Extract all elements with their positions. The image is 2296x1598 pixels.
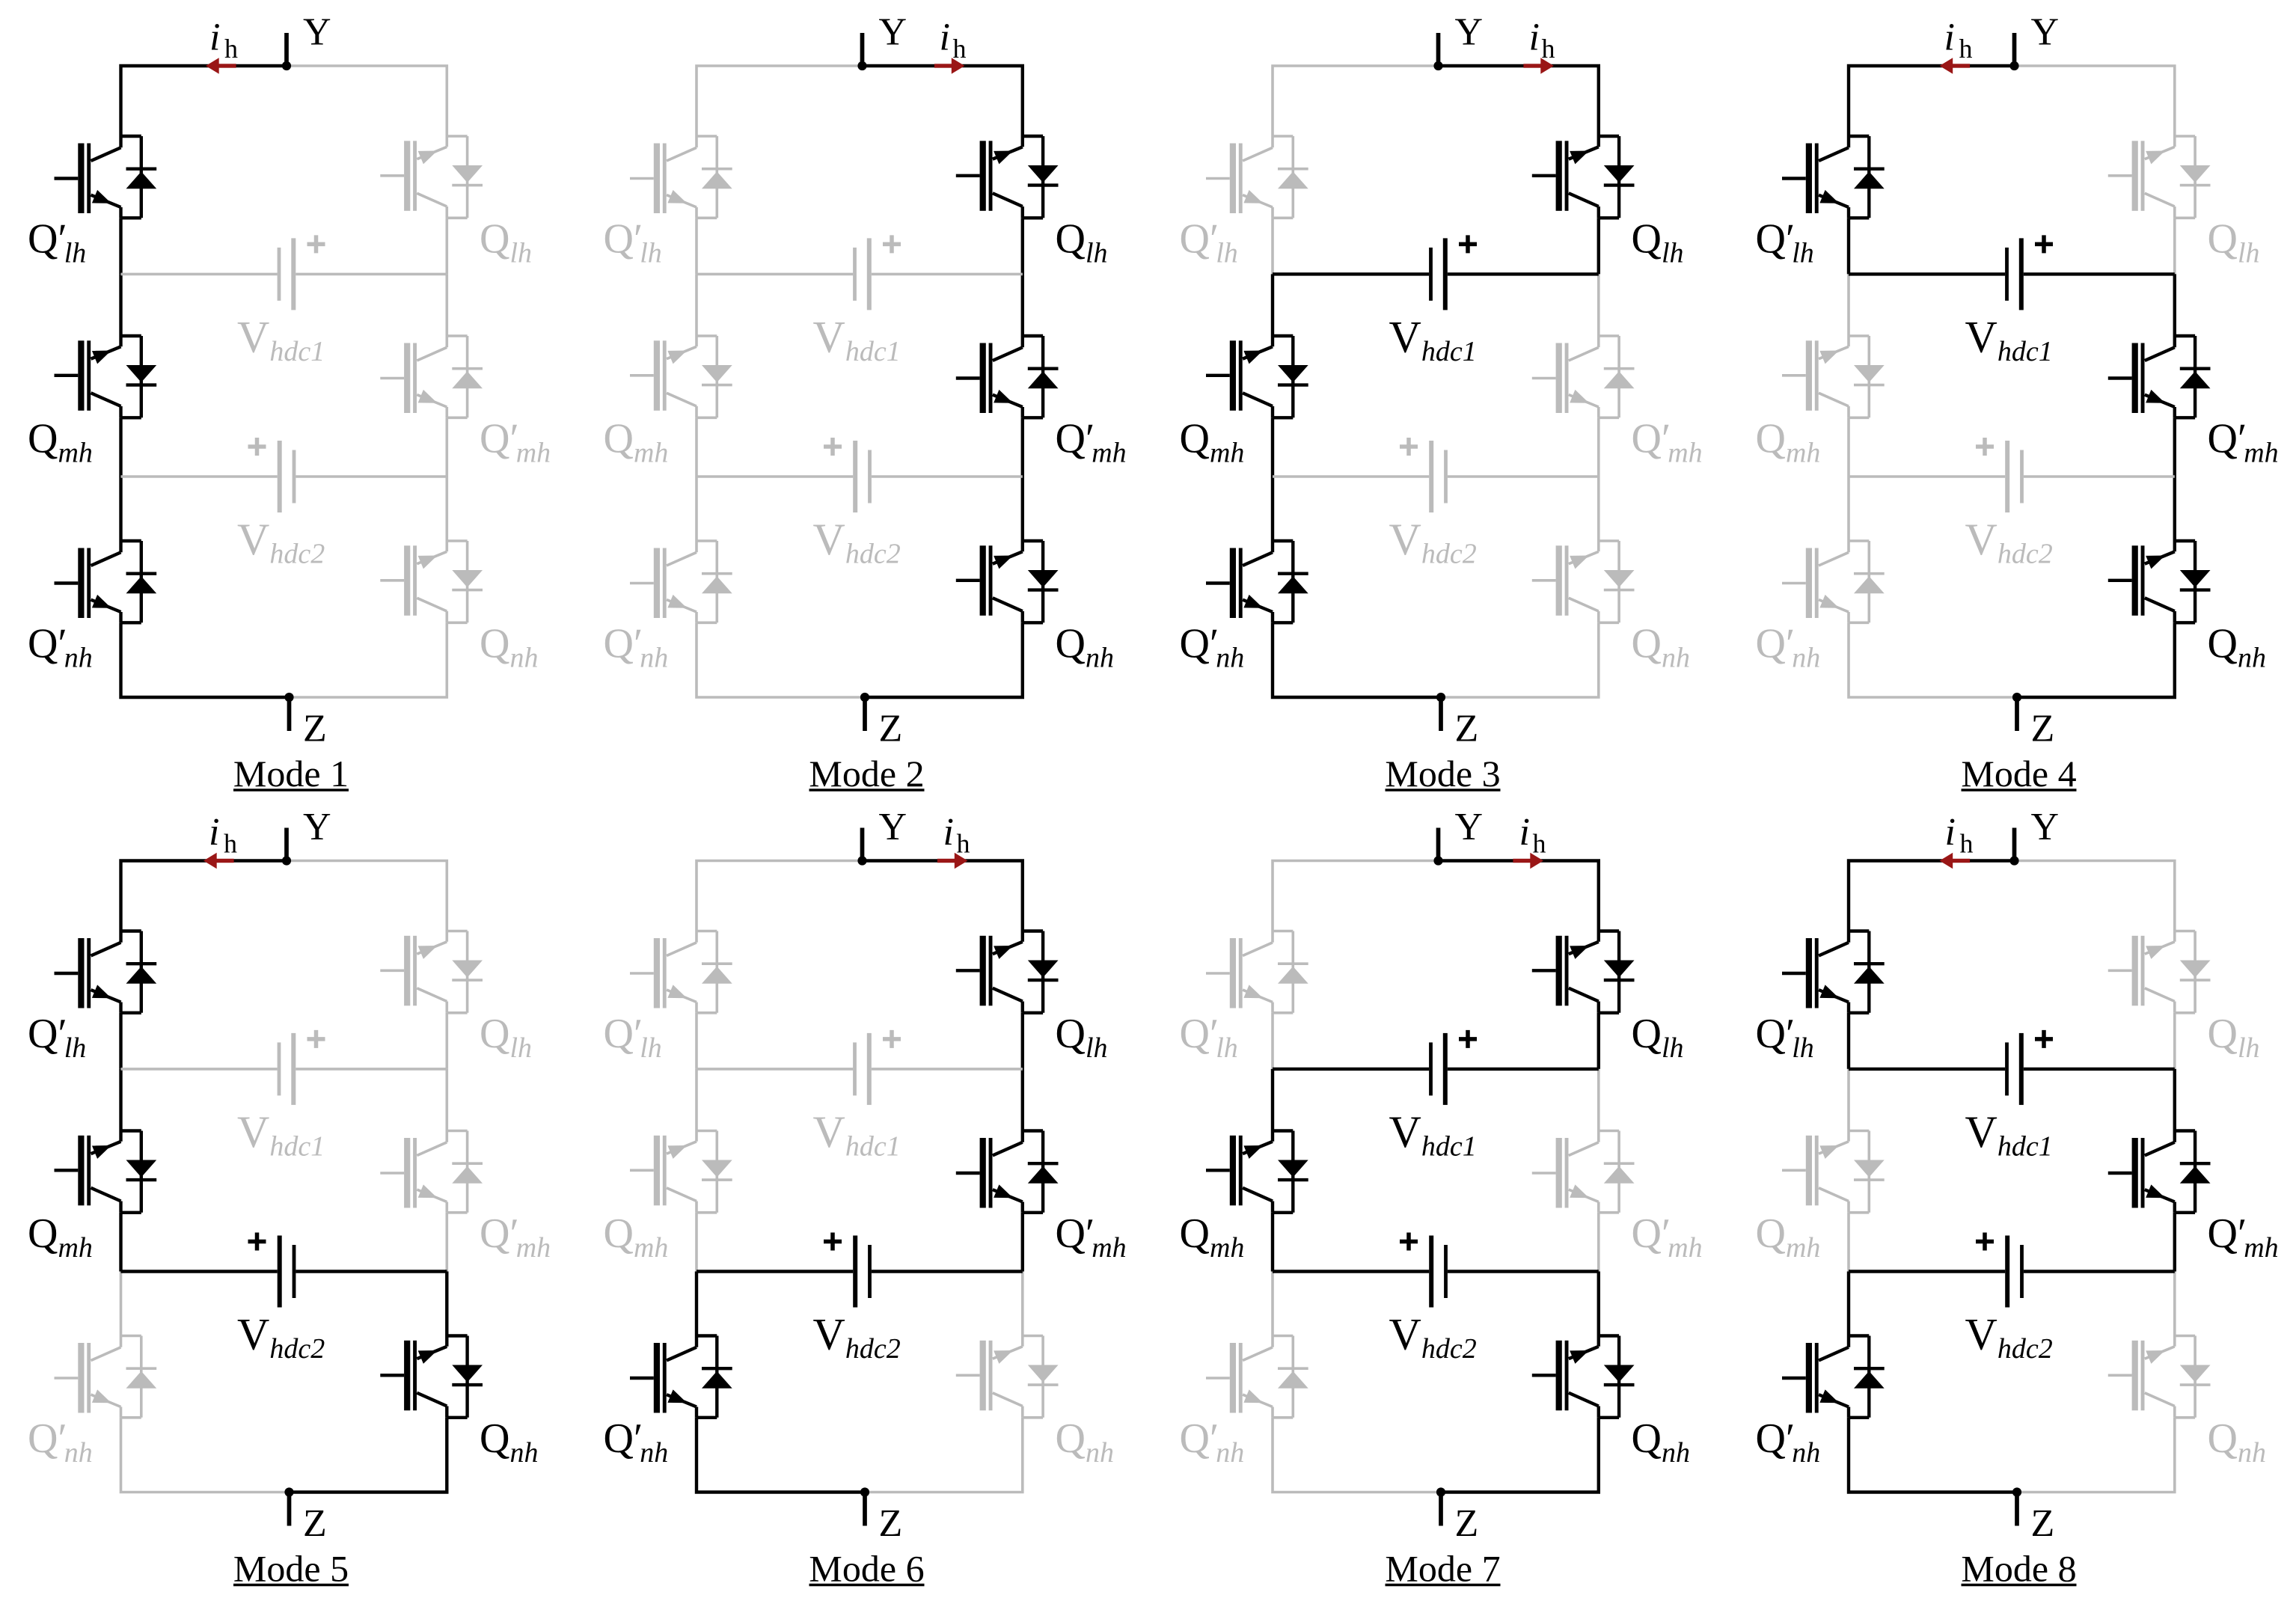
wire M8: bottom-right, Q_nh emitter to Z node [2017,1418,2175,1493]
wire M7: right rail, V_hdc2 branch junction to Q_nh [1597,1272,1600,1336]
wire M1: right rail, Q&apos;_mh to V_hdc2 branch junction [445,417,448,477]
wire M6: right rail, V_hdc2 branch junction to Q_nh [1021,1272,1024,1336]
wire M8: right rail, V_hdc1 branch junction to Q&apos;_mh [2173,1069,2176,1131]
wire M7: V_hdc1 branch, battery positive plate to right rail [1448,1068,1599,1071]
node Y (output terminal), Mode 7 [1433,828,1442,866]
wire M5: right rail, V_hdc2 branch junction to Q_nh [445,1272,448,1336]
node Y (output terminal), Mode 2 [857,33,866,70]
wire M6: right rail, Q_lh to V_hdc1 branch junction [1021,1013,1024,1069]
svg-text:Q′nh: Q′nh [1756,620,1821,673]
wire M2: right rail, Q_lh to V_hdc1 branch junction [1021,218,1024,274]
svg-text:Q′mh: Q′mh [1632,415,1703,468]
transistor Q&apos;_nh (IGBT with antiparallel diode), Mode 6 [630,1336,732,1418]
wire M4: V_hdc1 branch, battery positive plate to right rail [2024,272,2175,275]
battery V_hdc2 (DC source, + left), Mode 1 [248,438,296,512]
wire M7: right rail, Q&apos;_mh to V_hdc2 branch junction [1597,1213,1600,1272]
transistor Q_lh (IGBT with antiparallel diode), Mode 4 [2108,136,2211,218]
current arrow i_h (rightward), Mode 7 [1513,853,1543,869]
svg-text:Z: Z [2031,1502,2055,1545]
svg-text:Vhdc2: Vhdc2 [237,1310,325,1365]
wire M2: V_hdc2 branch, battery negative plate to right rail [872,475,1023,478]
transistor Q&apos;_nh (IGBT with antiparallel diode), Mode 7 [1206,1336,1308,1418]
wire M3: bottom-right, Q_nh emitter to Z node [1441,622,1599,697]
svg-text:Y: Y [1455,11,1484,54]
svg-text:Qlh: Qlh [2208,215,2260,269]
wire M3: left rail, Q&apos;_lh emitter to V_hdc1 branch junction [1271,218,1274,274]
wire M5: right rail, Q_lh to V_hdc1 branch junction [445,1013,448,1069]
transistor Q&apos;_mh (IGBT with antiparallel diode), Mode 2 [956,336,1059,417]
svg-text:Qmh: Qmh [1180,415,1245,468]
wire M5: left rail, V_hdc1 branch junction to Q_mh [119,1069,122,1131]
transistor Q_nh (IGBT with antiparallel diode), Mode 2 [956,541,1059,622]
wire M1: left rail, Q&apos;_lh emitter to V_hdc1 branch junction [119,218,122,274]
transistor Q&apos;_mh (IGBT with antiparallel diode), Mode 6 [956,1131,1059,1213]
transistor Q_nh (IGBT with antiparallel diode), Mode 1 [380,541,483,622]
transistor Q&apos;_lh (IGBT with antiparallel diode), Mode 7 [1206,931,1308,1013]
transistor Q_mh (IGBT with antiparallel diode), Mode 5 [55,1131,157,1213]
transistor Q&apos;_nh (IGBT with antiparallel diode), Mode 5 [55,1336,157,1418]
wire M7: right rail, V_hdc1 branch junction to Q&apos;_mh [1597,1069,1600,1131]
svg-text:Vhdc2: Vhdc2 [1389,515,1477,570]
wire M3: left rail, V_hdc1 branch junction to Q_mh [1271,274,1274,336]
svg-text:Q′lh: Q′lh [28,1011,86,1064]
wire M2: right rail, V_hdc2 branch junction to Q_nh [1021,477,1024,541]
wire M8: bottom-left, Q&apos;_nh emitter to Z node [1849,1418,2017,1493]
transistor Q_nh (IGBT with antiparallel diode), Mode 4 [2108,541,2211,622]
svg-text:Vhdc2: Vhdc2 [1965,515,2053,570]
transistor Q&apos;_mh (IGBT with antiparallel diode), Mode 7 [1532,1131,1635,1213]
transistor Q&apos;_lh (IGBT with antiparallel diode), Mode 6 [630,931,732,1013]
svg-text:Qnh: Qnh [480,620,538,673]
svg-text:Q′nh: Q′nh [604,1415,669,1469]
wire M6: left rail, V_hdc1 branch junction to Q_mh [695,1069,698,1131]
wire M8: right rail, Q&apos;_mh to V_hdc2 branch junction [2173,1213,2176,1272]
svg-text:i: i [1519,811,1530,854]
current arrow i_h (rightward), Mode 6 [937,853,968,869]
wire M8: left rail, V_hdc1 branch junction to Q_mh [1847,1069,1850,1131]
svg-text:Vhdc2: Vhdc2 [1965,1310,2053,1365]
transistor Q_lh (IGBT with antiparallel diode), Mode 7 [1532,931,1635,1013]
transistor Q&apos;_lh (IGBT with antiparallel diode), Mode 5 [55,931,157,1013]
transistor Q_nh (IGBT with antiparallel diode), Mode 6 [956,1336,1059,1418]
transistor Q&apos;_mh (IGBT with antiparallel diode), Mode 3 [1532,336,1635,417]
svg-text:Q′lh: Q′lh [604,215,662,269]
svg-text:Vhdc1: Vhdc1 [1389,312,1477,367]
svg-text:Vhdc1: Vhdc1 [1965,1107,2053,1163]
svg-text:Q′nh: Q′nh [1180,620,1245,673]
wire M8: left rail, Q&apos;_lh emitter to V_hdc1 branch junction [1847,1013,1850,1069]
node Y (output terminal), Mode 5 [282,828,291,866]
svg-text:i: i [209,811,219,854]
wire M7: top-left, Y node to Q&apos;_lh collector (left rail top) [1273,861,1439,931]
transistor Q_lh (IGBT with antiparallel diode), Mode 6 [956,931,1059,1013]
svg-text:Q′mh: Q′mh [2208,415,2279,468]
svg-text:Y: Y [2031,11,2060,54]
svg-text:Mode 5: Mode 5 [233,1548,349,1590]
wire M8: right rail, Q_lh to V_hdc1 branch junction [2173,1013,2176,1069]
wire M5: right rail, V_hdc1 branch junction to Q&apos;_mh [445,1069,448,1131]
wire M3: right rail, Q_lh to V_hdc1 branch junction [1597,218,1600,274]
svg-text:Qlh: Qlh [1632,1011,1684,1064]
node Z (output terminal), Mode 6 [860,1487,869,1525]
svg-text:i: i [1944,16,1955,59]
battery V_hdc2 (DC source, + left), Mode 4 [1976,438,2024,512]
wire M7: bottom-left, Q&apos;_nh emitter to Z node [1273,1418,1441,1493]
current arrow i_h (leftward), Mode 5 [203,853,234,869]
transistor Q_mh (IGBT with antiparallel diode), Mode 6 [630,1131,732,1213]
svg-text:Qlh: Qlh [2208,1011,2260,1064]
transistor Q_lh (IGBT with antiparallel diode), Mode 1 [380,136,483,218]
transistor Q_mh (IGBT with antiparallel diode), Mode 8 [1782,1131,1885,1213]
node Y (output terminal), Mode 4 [2009,33,2018,70]
svg-text:Qmh: Qmh [1756,1210,1821,1264]
transistor Q&apos;_lh (IGBT with antiparallel diode), Mode 4 [1782,136,1885,218]
wire M5: left rail, Q&apos;_lh emitter to V_hdc1 branch junction [119,1013,122,1069]
node Z (output terminal), Mode 2 [860,693,869,731]
wire M2: left rail, V_hdc2 branch junction to Q&apos;_nh [695,477,698,541]
svg-text:h: h [953,34,967,64]
svg-text:Q′lh: Q′lh [1756,215,1814,269]
svg-text:h: h [224,829,237,859]
wire M4: top-left, Y node to Q&apos;_lh collector (left rail top) [1849,66,2015,136]
wire M6: bottom-right, Q_nh emitter to Z node [865,1418,1023,1493]
wire M3: V_hdc2 branch, left rail to battery positive plate [1273,475,1429,478]
wire M1: left rail, V_hdc2 branch junction to Q&apos;_nh [119,477,122,541]
svg-text:Q′lh: Q′lh [1756,1011,1814,1064]
wire M6: V_hdc2 branch, battery negative plate to right rail [872,1270,1023,1273]
svg-text:Qlh: Qlh [480,215,532,269]
wire M3: bottom-left, Q&apos;_nh emitter to Z node [1273,622,1441,697]
svg-text:Q′lh: Q′lh [604,1011,662,1064]
wire M3: left rail, Q_mh to V_hdc2 branch junction [1271,417,1274,477]
svg-text:Q′mh: Q′mh [1632,1210,1703,1264]
wire M6: right rail, V_hdc1 branch junction to Q&apos;_mh [1021,1069,1024,1131]
wire M1: right rail, V_hdc2 branch junction to Q_nh [445,477,448,541]
wire M1: V_hdc1 branch, left rail to battery negative plate [121,273,278,276]
wire M2: V_hdc1 branch, battery positive plate to right rail [872,273,1023,276]
wire M4: left rail, V_hdc1 branch junction to Q_mh [1847,274,1850,336]
wire M5: V_hdc1 branch, battery positive plate to right rail [296,1068,447,1071]
wire M7: V_hdc1 branch, left rail to battery negative plate [1273,1068,1429,1071]
svg-text:Q′mh: Q′mh [1056,415,1127,468]
svg-text:Qnh: Qnh [1056,1415,1114,1469]
svg-text:Z: Z [303,708,327,750]
current arrow i_h (rightward), Mode 3 [1523,58,1554,73]
svg-text:Qnh: Qnh [2208,1415,2266,1469]
transistor Q&apos;_nh (IGBT with antiparallel diode), Mode 1 [55,541,157,622]
wire M5: right rail, Q&apos;_mh to V_hdc2 branch junction [445,1213,448,1272]
wire M4: left rail, Q&apos;_lh emitter to V_hdc1 branch junction [1847,218,1850,274]
svg-text:Z: Z [1455,708,1479,750]
svg-text:Qlh: Qlh [1632,215,1684,269]
svg-text:Q′nh: Q′nh [28,1415,93,1469]
wire M8: V_hdc1 branch, left rail to battery negative plate [1849,1068,2005,1071]
svg-text:Z: Z [1455,1502,1479,1545]
battery V_hdc2 (DC source, + left), Mode 6 [824,1233,872,1308]
wire M5: top-right, Y node to Q_lh collector (right rail top) [287,861,447,931]
svg-text:Vhdc1: Vhdc1 [813,312,901,367]
battery V_hdc1 (DC source, + right), Mode 6 [853,1030,901,1105]
wire M3: right rail, V_hdc1 branch junction to Q&apos;_mh [1597,274,1600,336]
wire M7: V_hdc2 branch, left rail to battery positive plate [1273,1270,1429,1273]
wire M4: V_hdc1 branch, left rail to battery negative plate [1849,272,2005,275]
svg-text:Z: Z [879,1502,903,1545]
svg-text:Qnh: Qnh [480,1415,538,1469]
transistor Q_nh (IGBT with antiparallel diode), Mode 7 [1532,1336,1635,1418]
transistor Q_nh (IGBT with antiparallel diode), Mode 8 [2108,1336,2211,1418]
wire M6: top-right, Y node to Q_lh collector (right rail top) [863,861,1023,931]
svg-text:Qmh: Qmh [604,415,669,468]
wire M5: V_hdc2 branch, battery negative plate to right rail [296,1270,447,1273]
transistor Q_lh (IGBT with antiparallel diode), Mode 5 [380,931,483,1013]
transistor Q_nh (IGBT with antiparallel diode), Mode 5 [380,1336,483,1418]
wire M4: V_hdc2 branch, left rail to battery positive plate [1849,475,2005,478]
wire M5: left rail, V_hdc2 branch junction to Q&apos;_nh [120,1272,123,1336]
wire M4: top-right, Y node to Q_lh collector (right rail top) [2015,66,2175,136]
wire M6: V_hdc2 branch, left rail to battery positive plate [697,1270,853,1273]
svg-text:Q′nh: Q′nh [604,620,669,673]
svg-text:Q′lh: Q′lh [1180,215,1238,269]
wire M8: V_hdc2 branch, battery negative plate to right rail [2024,1270,2175,1273]
wire M1: right rail, Q_lh to V_hdc1 branch junction [445,218,448,274]
wire M1: top-left, Y node to Q&apos;_lh collector (left rail top) [121,66,287,136]
svg-text:Y: Y [303,11,331,54]
transistor Q&apos;_lh (IGBT with antiparallel diode), Mode 1 [55,136,157,218]
transistor Q&apos;_nh (IGBT with antiparallel diode), Mode 4 [1782,541,1885,622]
wire M2: bottom-left, Q&apos;_nh emitter to Z node [697,622,865,697]
wire M7: left rail, Q_mh to V_hdc2 branch junction [1271,1213,1274,1272]
svg-text:Vhdc1: Vhdc1 [237,1107,325,1163]
svg-text:Qnh: Qnh [1632,620,1690,673]
wire M1: left rail, V_hdc1 branch junction to Q_mh [119,274,122,336]
wire M7: V_hdc2 branch, battery negative plate to right rail [1448,1270,1599,1273]
wire M3: right rail, Q&apos;_mh to V_hdc2 branch junction [1597,417,1600,477]
svg-text:Q′mh: Q′mh [1056,1210,1127,1264]
svg-text:Vhdc2: Vhdc2 [813,1310,901,1365]
wire M8: right rail, V_hdc2 branch junction to Q_nh [2173,1272,2176,1336]
battery V_hdc2 (DC source, + left), Mode 2 [824,438,872,512]
wire M6: V_hdc1 branch, battery positive plate to right rail [872,1068,1023,1071]
svg-text:Qnh: Qnh [1056,620,1114,673]
wire M2: V_hdc1 branch, left rail to battery negative plate [697,273,853,276]
current arrow i_h (rightward), Mode 2 [934,58,965,73]
wire M6: left rail, Q_mh to V_hdc2 branch junction [695,1213,698,1272]
wire M5: bottom-right, Q_nh emitter to Z node [290,1418,447,1493]
svg-text:Vhdc2: Vhdc2 [813,515,901,570]
wire M8: top-right, Y node to Q_lh collector (right rail top) [2015,861,2175,931]
wire M8: left rail, Q_mh to V_hdc2 branch junction [1847,1213,1850,1272]
svg-text:Vhdc1: Vhdc1 [237,312,325,367]
transistor Q&apos;_lh (IGBT with antiparallel diode), Mode 3 [1206,136,1308,218]
node Z (output terminal), Mode 1 [284,693,293,731]
svg-text:i: i [943,811,954,854]
transistor Q&apos;_nh (IGBT with antiparallel diode), Mode 2 [630,541,732,622]
node Y (output terminal), Mode 3 [1433,33,1442,70]
svg-text:Mode 1: Mode 1 [233,753,349,795]
svg-text:Qmh: Qmh [28,415,93,468]
wire M3: V_hdc1 branch, battery positive plate to right rail [1448,272,1599,275]
wire M7: left rail, Q&apos;_lh emitter to V_hdc1 branch junction [1271,1013,1274,1069]
wire M3: top-right, Y node to Q_lh collector (right rail top) [1439,66,1599,136]
svg-text:i: i [1945,811,1956,854]
wire M4: V_hdc2 branch, battery negative plate to right rail [2024,475,2175,478]
svg-text:Mode 8: Mode 8 [1961,1548,2076,1590]
svg-text:Q′lh: Q′lh [1180,1011,1238,1064]
wire M7: bottom-right, Q_nh emitter to Z node [1441,1418,1599,1493]
svg-text:Q′lh: Q′lh [28,215,86,269]
wire M4: right rail, V_hdc2 branch junction to Q_nh [2173,477,2176,541]
node Z (output terminal), Mode 8 [2012,1487,2021,1525]
svg-text:Mode 6: Mode 6 [809,1548,924,1590]
wire M1: V_hdc2 branch, battery negative plate to right rail [296,475,447,478]
svg-text:Y: Y [303,806,331,848]
wire M2: top-right, Y node to Q_lh collector (right rail top) [863,66,1023,136]
svg-text:Mode 2: Mode 2 [809,753,924,795]
svg-text:Qmh: Qmh [1756,415,1821,468]
battery V_hdc2 (DC source, + left), Mode 7 [1400,1233,1448,1308]
wire M8: top-left, Y node to Q&apos;_lh collector (left rail top) [1849,861,2015,931]
battery V_hdc2 (DC source, + left), Mode 8 [1976,1233,2024,1308]
svg-text:i: i [209,16,220,59]
wire M7: right rail, Q_lh to V_hdc1 branch junction [1597,1013,1600,1069]
svg-text:h: h [224,34,238,64]
svg-text:Q′nh: Q′nh [1180,1415,1245,1469]
wire M6: left rail, Q&apos;_lh emitter to V_hdc1 branch junction [695,1013,698,1069]
transistor Q&apos;_mh (IGBT with antiparallel diode), Mode 5 [380,1131,483,1213]
wire M2: bottom-right, Q_nh emitter to Z node [865,622,1023,697]
transistor Q_lh (IGBT with antiparallel diode), Mode 3 [1532,136,1635,218]
battery V_hdc1 (DC source, + right), Mode 8 [2005,1030,2053,1105]
svg-text:Mode 7: Mode 7 [1385,1548,1500,1590]
svg-text:Q′nh: Q′nh [1756,1415,1821,1469]
wire M3: left rail, V_hdc2 branch junction to Q&apos;_nh [1271,477,1274,541]
wire M7: left rail, V_hdc2 branch junction to Q&apos;_nh [1271,1272,1274,1336]
battery V_hdc1 (DC source, + right), Mode 5 [278,1030,325,1105]
wire M6: V_hdc1 branch, left rail to battery negative plate [697,1068,853,1071]
svg-text:Qnh: Qnh [1632,1415,1690,1469]
wire M3: top-left, Y node to Q&apos;_lh collector (left rail top) [1273,66,1439,136]
node Z (output terminal), Mode 4 [2012,693,2021,731]
transistor Q&apos;_nh (IGBT with antiparallel diode), Mode 3 [1206,541,1308,622]
wire M1: left rail, Q_mh to V_hdc2 branch junction [119,417,122,477]
transistor Q&apos;_mh (IGBT with antiparallel diode), Mode 8 [2108,1131,2211,1213]
wire M5: left rail, Q_mh to V_hdc2 branch junction [119,1213,122,1272]
wire M8: left rail, V_hdc2 branch junction to Q&apos;_nh [1847,1272,1850,1336]
battery V_hdc1 (DC source, + right), Mode 7 [1429,1030,1477,1105]
node Y (output terminal), Mode 1 [282,33,291,70]
battery V_hdc1 (DC source, + right), Mode 3 [1429,235,1477,310]
svg-text:Y: Y [879,11,907,54]
wire M6: bottom-left, Q&apos;_nh emitter to Z node [697,1418,865,1493]
svg-text:Vhdc1: Vhdc1 [1965,312,2053,367]
wire M2: left rail, Q&apos;_lh emitter to V_hdc1 branch junction [695,218,698,274]
svg-text:i: i [1529,16,1540,59]
wire M5: bottom-left, Q&apos;_nh emitter to Z node [121,1418,290,1493]
svg-text:Y: Y [2031,806,2060,848]
svg-text:Vhdc2: Vhdc2 [237,515,325,570]
svg-text:Vhdc2: Vhdc2 [1389,1310,1477,1365]
battery V_hdc2 (DC source, + left), Mode 5 [248,1233,296,1308]
battery V_hdc2 (DC source, + left), Mode 3 [1400,438,1448,512]
svg-text:Mode 3: Mode 3 [1385,753,1500,795]
battery V_hdc1 (DC source, + right), Mode 1 [278,235,325,310]
svg-text:Y: Y [1455,806,1484,848]
wire M6: top-left, Y node to Q&apos;_lh collector (left rail top) [697,861,863,931]
svg-text:Q′mh: Q′mh [480,415,551,468]
wire M2: top-left, Y node to Q&apos;_lh collector (left rail top) [697,66,863,136]
node Y (output terminal), Mode 8 [2009,828,2018,866]
wire M5: V_hdc1 branch, left rail to battery negative plate [121,1068,278,1071]
wire M6: right rail, Q&apos;_mh to V_hdc2 branch junction [1021,1213,1024,1272]
wire M4: bottom-right, Q_nh emitter to Z node [2017,622,2175,697]
transistor Q_nh (IGBT with antiparallel diode), Mode 3 [1532,541,1635,622]
svg-text:Z: Z [2031,708,2055,750]
node Y (output terminal), Mode 6 [857,828,866,866]
svg-text:Vhdc1: Vhdc1 [1389,1107,1477,1163]
svg-text:Qnh: Qnh [2208,620,2266,673]
svg-text:Qlh: Qlh [480,1011,532,1064]
wire M1: top-right, Y node to Q_lh collector (right rail top) [287,66,447,136]
current arrow i_h (leftward), Mode 8 [1940,853,1971,869]
wire M4: right rail, V_hdc1 branch junction to Q&apos;_mh [2173,274,2176,336]
wire M4: left rail, Q_mh to V_hdc2 branch junction [1847,417,1850,477]
node Z (output terminal), Mode 7 [1436,1487,1445,1525]
wire M1: bottom-right, Q_nh emitter to Z node [290,622,447,697]
wire M2: right rail, V_hdc1 branch junction to Q&apos;_mh [1021,274,1024,336]
wire M1: right rail, V_hdc1 branch junction to Q&apos;_mh [445,274,448,336]
wire M8: V_hdc1 branch, battery positive plate to right rail [2024,1068,2175,1071]
transistor Q_mh (IGBT with antiparallel diode), Mode 1 [55,336,157,417]
wire M7: top-right, Y node to Q_lh collector (right rail top) [1439,861,1599,931]
wire M3: V_hdc2 branch, battery negative plate to right rail [1448,475,1599,478]
current arrow i_h (leftward), Mode 4 [1940,58,1971,73]
wire M2: left rail, V_hdc1 branch junction to Q_mh [695,274,698,336]
wire M4: right rail, Q&apos;_mh to V_hdc2 branch junction [2173,417,2176,477]
svg-text:Q′mh: Q′mh [480,1210,551,1264]
wire M3: V_hdc1 branch, left rail to battery negative plate [1273,272,1429,275]
svg-text:i: i [940,16,950,59]
transistor Q_lh (IGBT with antiparallel diode), Mode 2 [956,136,1059,218]
svg-text:Z: Z [303,1502,327,1545]
transistor Q&apos;_lh (IGBT with antiparallel diode), Mode 8 [1782,931,1885,1013]
node Z (output terminal), Mode 3 [1436,693,1445,731]
svg-text:Vhdc1: Vhdc1 [813,1107,901,1163]
svg-text:Qlh: Qlh [1056,215,1108,269]
svg-text:Y: Y [879,806,907,848]
node Z (output terminal), Mode 5 [284,1487,293,1525]
wire M5: V_hdc2 branch, left rail to battery positive plate [121,1270,278,1273]
wire M2: V_hdc2 branch, left rail to battery positive plate [697,475,853,478]
wire M2: right rail, Q&apos;_mh to V_hdc2 branch junction [1021,417,1024,477]
svg-text:Qmh: Qmh [28,1210,93,1264]
transistor Q_mh (IGBT with antiparallel diode), Mode 2 [630,336,732,417]
svg-text:Qmh: Qmh [604,1210,669,1264]
transistor Q&apos;_mh (IGBT with antiparallel diode), Mode 1 [380,336,483,417]
current arrow i_h (leftward), Mode 1 [206,58,236,73]
transistor Q&apos;_lh (IGBT with antiparallel diode), Mode 2 [630,136,732,218]
svg-text:Qlh: Qlh [1056,1011,1108,1064]
transistor Q_lh (IGBT with antiparallel diode), Mode 8 [2108,931,2211,1013]
wire M3: right rail, V_hdc2 branch junction to Q_nh [1597,477,1600,541]
svg-text:h: h [1542,34,1555,64]
svg-text:Z: Z [879,708,903,750]
svg-text:Qmh: Qmh [1180,1210,1245,1264]
transistor Q_mh (IGBT with antiparallel diode), Mode 7 [1206,1131,1308,1213]
svg-text:Q′mh: Q′mh [2208,1210,2279,1264]
wire M8: V_hdc2 branch, left rail to battery positive plate [1849,1270,2005,1273]
svg-text:h: h [957,829,970,859]
wire M5: top-left, Y node to Q&apos;_lh collector (left rail top) [121,861,287,931]
